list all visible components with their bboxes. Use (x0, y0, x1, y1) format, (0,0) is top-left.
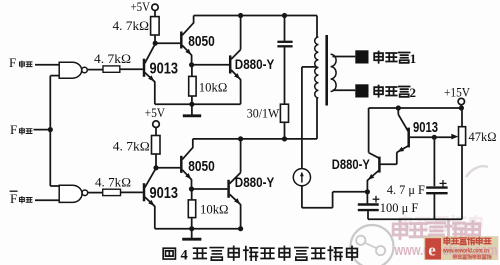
svg-text:10kΩ: 10kΩ (200, 202, 229, 216)
svg-text:4. 7kΩ: 4. 7kΩ (94, 52, 131, 66)
svg-text:+15V: +15V (444, 85, 470, 99)
svg-text:10kΩ: 10kΩ (199, 80, 228, 94)
svg-text:9013: 9013 (413, 119, 438, 136)
svg-text:+5V: +5V (145, 106, 166, 120)
svg-text:e: e (428, 241, 436, 260)
svg-text:4. 7kΩ: 4. 7kΩ (113, 19, 150, 33)
svg-text:100 μ F: 100 μ F (380, 201, 419, 215)
svg-text:4: 4 (181, 248, 188, 264)
svg-text:F: F (10, 191, 17, 206)
svg-text:47kΩ: 47kΩ (469, 130, 497, 144)
svg-text:2: 2 (410, 85, 417, 100)
svg-text:www.eeworld.com.cn: www.eeworld.com.cn (442, 248, 489, 255)
svg-text:4. 7kΩ: 4. 7kΩ (95, 176, 131, 190)
svg-text:D880-Y: D880-Y (332, 157, 370, 172)
svg-text:30/1W: 30/1W (247, 107, 280, 121)
svg-text:4. 7kΩ: 4. 7kΩ (113, 139, 150, 153)
svg-text:8050: 8050 (188, 33, 215, 50)
svg-text:D880-Y: D880-Y (235, 57, 274, 72)
svg-text:9013: 9013 (150, 185, 179, 202)
svg-text:+5V: +5V (131, 0, 151, 14)
svg-text:1: 1 (410, 51, 417, 66)
svg-text:8050: 8050 (188, 158, 215, 175)
svg-text:9013: 9013 (150, 60, 179, 77)
svg-text:F: F (10, 122, 17, 137)
svg-text:D880-Y: D880-Y (235, 175, 274, 190)
svg-text:F: F (9, 55, 16, 70)
svg-text:4. 7 μ F: 4. 7 μ F (387, 183, 425, 197)
